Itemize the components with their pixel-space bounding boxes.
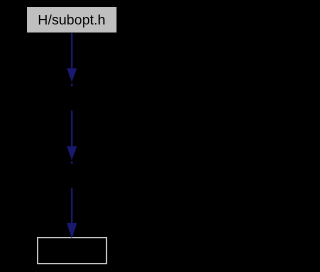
edge2 tip dot	[71, 161, 73, 163]
edge1 arrowhead	[67, 68, 77, 82]
wire edge3 shaft	[71, 188, 73, 223]
edge3 arrowhead	[67, 223, 77, 239]
svg-text:H/subopt.h: H/subopt.h	[38, 11, 106, 27]
node U1 label H/subopt.h	[38, 11, 106, 27]
edge1 tip dot	[71, 84, 73, 87]
node U1 H/subopt.h box	[27, 7, 117, 33]
edge2 arrowhead	[67, 146, 77, 160]
wire edge1 shaft	[71, 33, 73, 69]
wire edge2 shaft	[71, 111, 73, 147]
node box bottom (empty)	[38, 238, 107, 264]
